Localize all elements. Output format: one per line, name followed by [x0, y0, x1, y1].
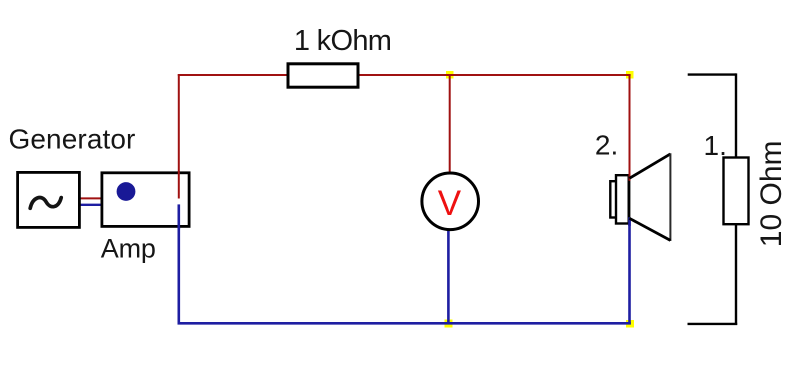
- generator G1 box: [18, 172, 80, 227]
- measurement bracket bottom horizontal: [688, 323, 738, 325]
- generator sine symbol: [30, 198, 61, 209]
- wire red top horizontal right segment: [358, 74, 631, 76]
- svg-text:1 kOhm: 1 kOhm: [294, 25, 391, 57]
- node junction dot top-mid: [446, 71, 454, 79]
- node junction dot bottom-right: [626, 320, 634, 328]
- wire blue vertical from amp: [178, 204, 181, 324]
- wire red vertical at amp: [178, 74, 180, 199]
- speaker cone bottom diagonal: [629, 218, 670, 240]
- wire blue from speaker over neck: [628, 217, 631, 226]
- wire red into speaker over neck: [629, 173, 631, 181]
- svg-text:1.: 1.: [704, 130, 727, 161]
- speaker LS1 magnet rect: [610, 181, 625, 217]
- resistor R2 value 10 Ohm: [724, 158, 749, 225]
- svg-text:Generator: Generator: [9, 124, 136, 155]
- wire blue bottom horizontal: [178, 322, 631, 325]
- node junction dot top-right: [626, 71, 634, 79]
- wire blue vertical from voltmeter: [447, 230, 450, 324]
- wire red vertical to voltmeter: [449, 75, 451, 174]
- wire blue vertical at amp inside box (redraw over box): [178, 204, 181, 229]
- wire blue generator to amp: [80, 204, 103, 206]
- measurement bracket vertical upper: [735, 73, 737, 157]
- node junction dot bottom-mid: [445, 320, 453, 328]
- wire blue vertical from speaker: [628, 218, 631, 325]
- measurement bracket vertical lower: [735, 224, 737, 325]
- svg-text:Amp: Amp: [101, 234, 156, 264]
- amplifier indicator dot: [117, 182, 136, 201]
- measurement bracket top horizontal: [688, 73, 736, 75]
- svg-text:10 Ohm: 10 Ohm: [755, 140, 788, 247]
- wire red generator to amp: [80, 197, 103, 199]
- wire red vertical to speaker: [629, 74, 631, 181]
- speaker cone right edge: [669, 153, 671, 241]
- voltmeter V1 circle: [422, 173, 479, 230]
- speaker cone neck edge: [628, 178, 630, 220]
- amplifier U1 box: [102, 173, 189, 227]
- wire red top horizontal left segment: [178, 74, 288, 76]
- wire red vertical at amp inside box (redraw over box): [178, 171, 180, 199]
- svg-text:2.: 2.: [595, 130, 618, 161]
- speaker cone top diagonal: [629, 154, 670, 178]
- svg-text:V: V: [438, 184, 462, 223]
- resistor R1 value 1 kOhm: [288, 64, 358, 87]
- speaker LS1 driver rect: [616, 175, 629, 223]
